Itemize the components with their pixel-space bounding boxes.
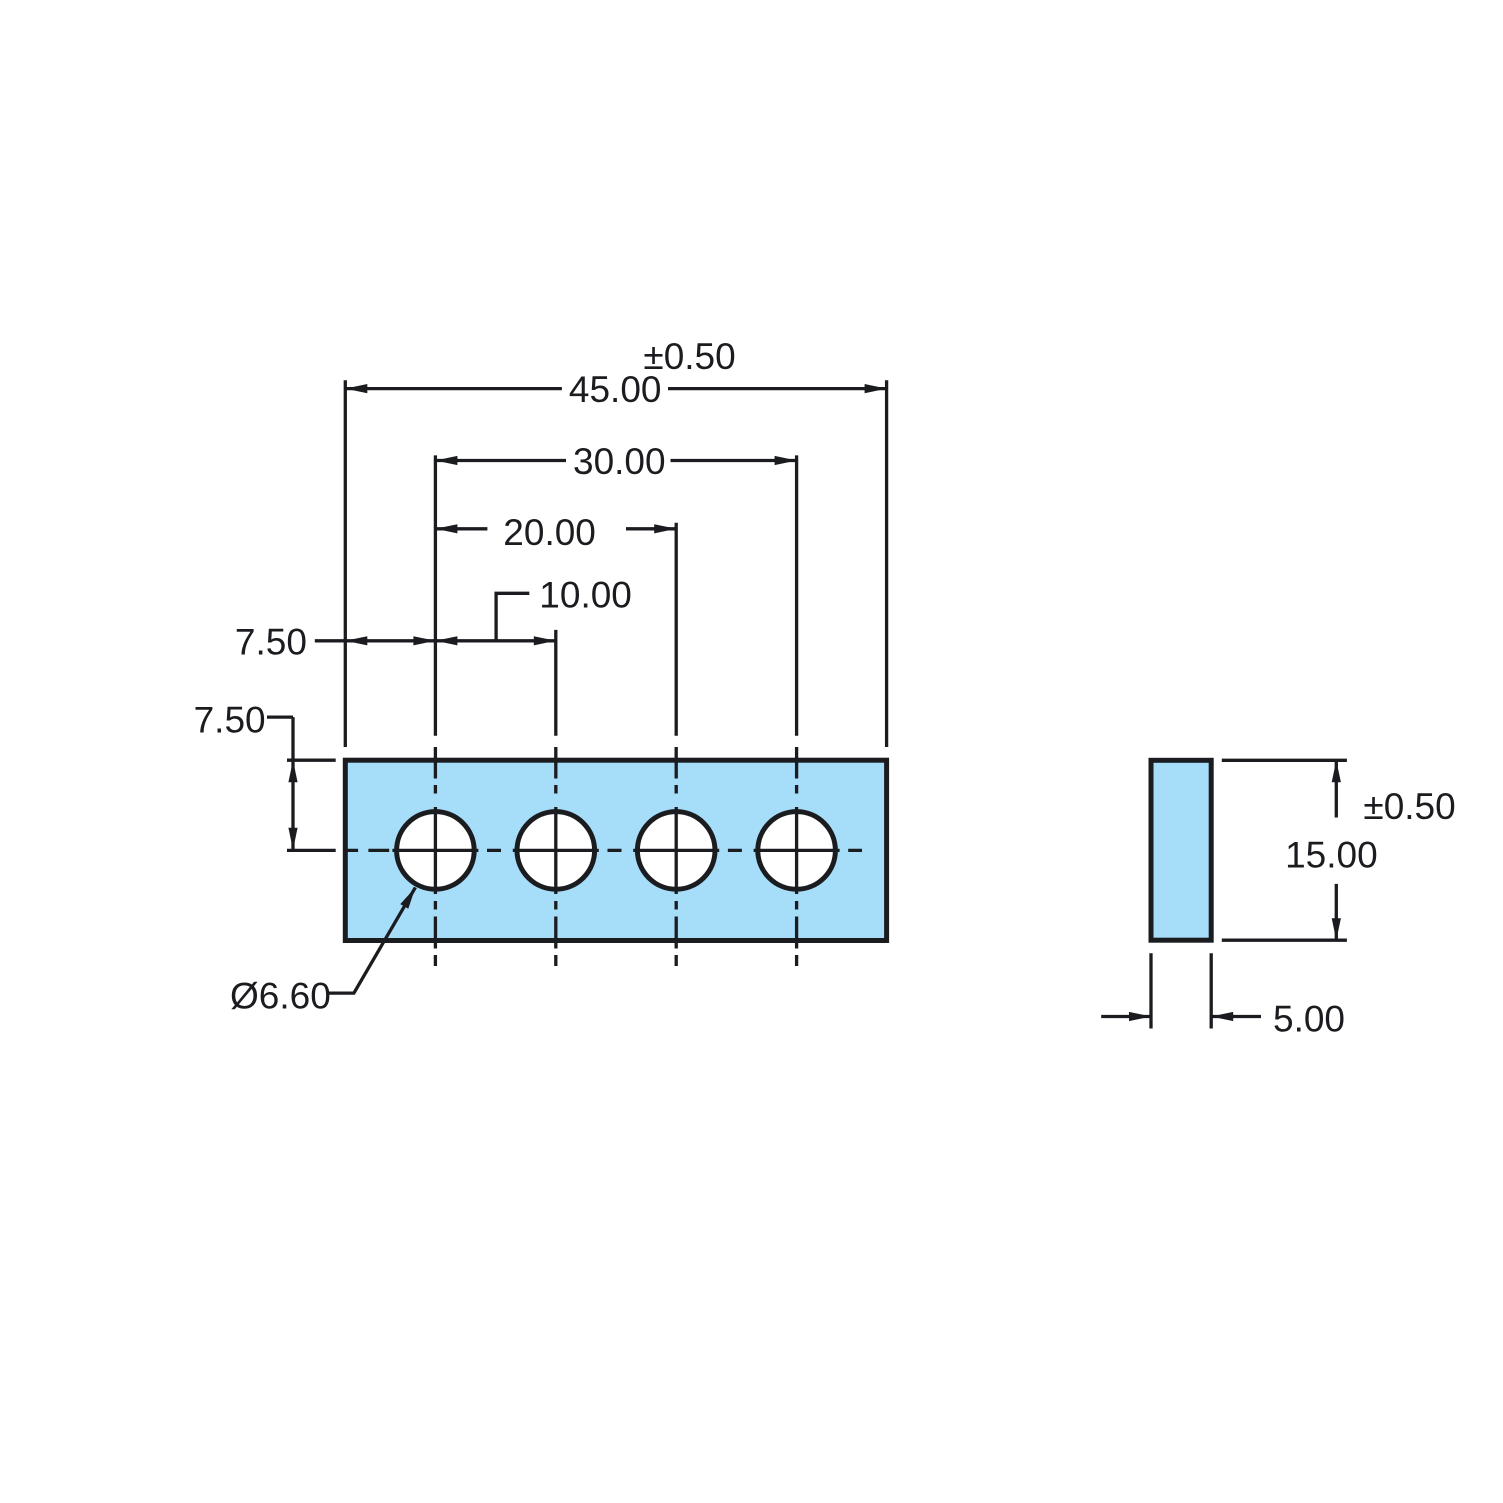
svg-text:20.00: 20.00 bbox=[503, 512, 596, 553]
dimension line 20.00 bbox=[435, 527, 676, 530]
vertical centerline hole 4 bbox=[795, 747, 798, 966]
svg-text:5.00: 5.00 bbox=[1273, 999, 1345, 1040]
dimension line 5.00 bbox=[1101, 1015, 1261, 1018]
svg-text:7.50: 7.50 bbox=[194, 700, 266, 741]
dimension line 45.00 bbox=[345, 387, 886, 390]
extension line hole 4 center bbox=[795, 455, 798, 735]
hole 2 (Ø6.60) bbox=[517, 812, 595, 890]
leader for 10.00 bbox=[496, 593, 529, 641]
hole 4 (Ø6.60) bbox=[758, 812, 836, 890]
vertical dimension 7.50 (edge to hole center) bbox=[267, 717, 293, 850]
extension line right plate edge bbox=[885, 380, 888, 747]
extension line hole 3 center bbox=[675, 523, 678, 736]
plate front view (45x15 plate body) bbox=[345, 760, 886, 940]
svg-text:±0.50: ±0.50 bbox=[1363, 786, 1455, 827]
svg-text:15.00: 15.00 bbox=[1285, 835, 1378, 876]
vertical centerline hole 2 bbox=[554, 747, 557, 966]
svg-text:±0.50: ±0.50 bbox=[643, 336, 735, 377]
svg-text:Ø6.60: Ø6.60 bbox=[230, 976, 331, 1017]
hole 1 (Ø6.60) bbox=[397, 812, 475, 890]
extension line side bottom bbox=[1222, 939, 1347, 942]
extension line thickness right bbox=[1210, 953, 1213, 1028]
dimension line 30.00 bbox=[435, 459, 796, 462]
svg-text:7.50: 7.50 bbox=[235, 622, 307, 663]
leader for Ø6.60 bbox=[329, 887, 416, 993]
horizontal centerline through holes bbox=[345, 849, 862, 852]
vertical centerline hole 3 bbox=[675, 747, 678, 966]
vertical centerline hole 1 bbox=[434, 747, 437, 966]
svg-text:10.00: 10.00 bbox=[539, 575, 632, 616]
dimension line 15.00 bbox=[1335, 760, 1338, 940]
extension line hole 2 center bbox=[554, 630, 557, 736]
extension line thickness left bbox=[1149, 953, 1152, 1028]
side view plate body (5x15) bbox=[1151, 760, 1211, 940]
extension line side top bbox=[1222, 759, 1347, 762]
extension segment hole centerline left bbox=[287, 849, 336, 852]
extension segment plate top left bbox=[287, 759, 336, 762]
extension line left plate edge bbox=[344, 380, 347, 747]
chained dimension line 7.50 / 10.00 bbox=[315, 639, 556, 642]
extension line hole 1 center bbox=[434, 455, 437, 735]
svg-text:30.00: 30.00 bbox=[573, 441, 666, 482]
hole 3 (Ø6.60) bbox=[637, 812, 715, 890]
